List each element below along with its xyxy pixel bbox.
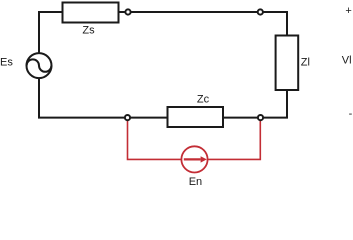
svg-text:Zl: Zl xyxy=(301,56,310,68)
impedance Zs xyxy=(63,3,119,23)
source En (red source circle) xyxy=(181,146,207,172)
wire (outer black circuit loop) xyxy=(39,12,287,118)
source Es (AC source circle) xyxy=(27,53,52,78)
svg-text:Es: Es xyxy=(0,56,13,68)
svg-text:Zs: Zs xyxy=(82,25,95,37)
wire (red loop from bottom-left node to En to bottom-right node) xyxy=(128,118,261,160)
arrow inside En xyxy=(184,158,201,160)
impedance Zl xyxy=(276,36,299,91)
node (terminal on top wire, right) xyxy=(258,9,263,14)
node (bottom-left junction) xyxy=(125,115,130,120)
sine wave inside Es xyxy=(27,59,52,71)
node (terminal after Zs) xyxy=(125,9,130,14)
svg-text:Zc: Zc xyxy=(197,94,210,106)
svg-text:En: En xyxy=(189,176,202,188)
svg-text:+: + xyxy=(345,5,351,17)
svg-text:-: - xyxy=(349,108,353,120)
impedance Zc xyxy=(168,107,224,127)
node (bottom-right junction) xyxy=(258,115,263,120)
svg-text:Vl: Vl xyxy=(342,54,352,66)
